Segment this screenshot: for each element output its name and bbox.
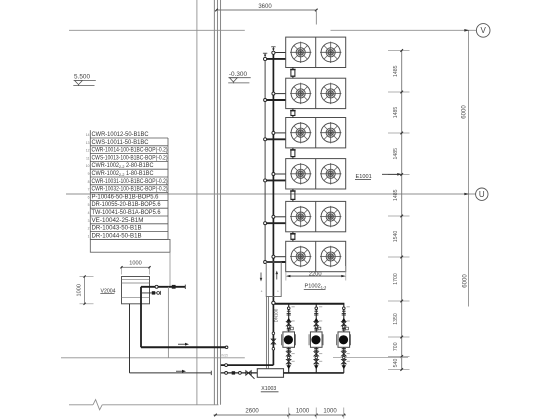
svg-text:7: 7 [88,188,90,192]
svg-text:8: 8 [88,180,90,184]
svg-text:P10021-3: P10021-3 [305,284,327,290]
svg-text:3: 3 [88,219,90,223]
svg-text:CWR-10012-50-B1BC: CWR-10012-50-B1BC [92,132,150,138]
svg-text:1: 1 [88,234,90,238]
svg-text:CWR-10031-100-B1BC-BOP(-0.2): CWR-10031-100-B1BC-BOP(-0.2) [92,179,168,185]
svg-text:DR-10044-50-B1B: DR-10044-50-B1B [92,233,142,239]
svg-text:1700: 1700 [393,273,399,285]
svg-text:E1001: E1001 [356,174,372,180]
svg-text:5.500: 5.500 [74,74,90,81]
svg-text:12: 12 [86,149,90,153]
svg-text:CWR-10014-100-B1BC-BOP(-0.2): CWR-10014-100-B1BC-BOP(-0.2) [92,148,168,154]
svg-text:1485: 1485 [393,65,399,77]
svg-text:V: V [481,26,487,35]
svg-text:1540: 1540 [393,231,399,243]
svg-text:700: 700 [393,342,399,351]
svg-text:1485: 1485 [393,189,399,201]
svg-text:TW-10041-50-B1A-BOP5.6: TW-10041-50-B1A-BOP5.6 [92,210,162,216]
svg-text:4: 4 [88,211,90,215]
svg-text:CWR-10032-100-B1BC-BOP(-0.2): CWR-10032-100-B1BC-BOP(-0.2) [92,187,168,193]
svg-text:CWS-10011-50-B1BC: CWS-10011-50-B1BC [92,140,150,146]
svg-text:1485: 1485 [393,148,399,160]
svg-text:DN100: DN100 [274,308,279,322]
svg-text:-0.300: -0.300 [229,71,248,78]
svg-text:6000: 6000 [462,105,468,119]
svg-text:CWS-10013-100-B1BC-BOP(-0.2): CWS-10013-100-B1BC-BOP(-0.2) [92,155,168,161]
svg-text:11: 11 [86,156,90,160]
svg-text:X1003: X1003 [261,386,276,392]
svg-text:1000: 1000 [323,408,337,414]
svg-text:DR-10043-50-B1B: DR-10043-50-B1B [92,226,142,232]
svg-text:VE-10042-25-B1M: VE-10042-25-B1M [92,218,144,224]
svg-text:P-10046-50-B1B-BOP5.6: P-10046-50-B1B-BOP5.6 [92,194,160,200]
svg-text:DR-10055-20-B1B-BOP5.6: DR-10055-20-B1B-BOP5.6 [92,202,162,208]
svg-text:1000: 1000 [129,260,141,266]
svg-text:540: 540 [393,359,399,368]
svg-text:DN15: DN15 [220,354,228,358]
svg-text:2600: 2600 [245,408,259,414]
svg-text:U: U [479,190,485,199]
svg-text:1485: 1485 [393,107,399,119]
svg-text:2: 2 [88,227,90,231]
svg-text:14: 14 [86,133,90,137]
svg-text:6: 6 [88,195,90,199]
svg-text:2200: 2200 [309,271,322,277]
svg-text:6000: 6000 [463,274,469,288]
svg-text:CWR-10022-2 2-80-B1BC: CWR-10022-2 2-80-B1BC [92,163,155,169]
svg-text:13: 13 [86,141,90,145]
svg-text:10: 10 [86,164,90,168]
svg-text:CWR-10022-2 1-80-B1BC: CWR-10022-2 1-80-B1BC [92,171,155,177]
svg-text:5: 5 [88,203,90,207]
svg-text:3600: 3600 [258,4,272,10]
svg-text:9: 9 [88,172,90,176]
svg-text:1000: 1000 [296,408,310,414]
svg-text:1000: 1000 [77,284,83,296]
svg-text:1350: 1350 [393,313,399,325]
